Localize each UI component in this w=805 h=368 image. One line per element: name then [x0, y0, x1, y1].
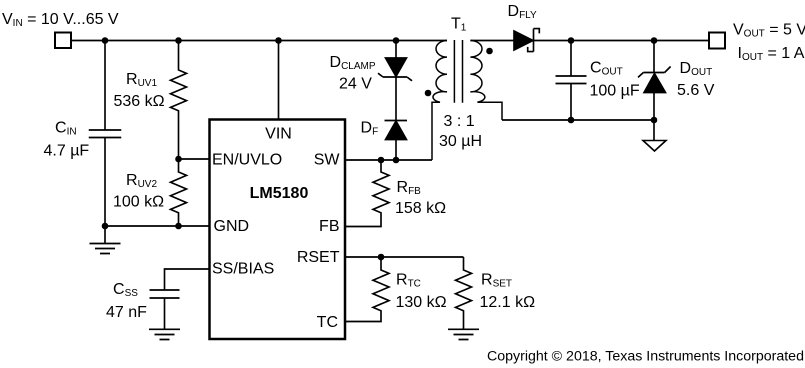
- node phase dot secondary: [486, 48, 493, 55]
- svg-text:RSET: RSET: [481, 272, 512, 290]
- node VOUT rail / COUT: [568, 37, 575, 44]
- wire SS/BIAS to CSS: [165, 269, 210, 290]
- diode DFLY (schottky): [514, 31, 533, 50]
- resistor RTC: [345, 257, 389, 322]
- svg-text:IOUT = 1 A: IOUT = 1 A: [738, 45, 805, 63]
- svg-text:GND: GND: [214, 218, 250, 235]
- capacitor CSS: [150, 290, 180, 298]
- capacitor CIN: [89, 130, 122, 138]
- svg-text:RUV1: RUV1: [126, 71, 157, 89]
- zener DCLAMP: [386, 58, 407, 77]
- svg-text:5.6 V: 5.6 V: [677, 82, 715, 99]
- svg-text:47 nF: 47 nF: [106, 304, 147, 321]
- svg-text:VIN: VIN: [265, 126, 292, 143]
- wire CIN top lead: [104, 41, 106, 131]
- svg-text:100 kΩ: 100 kΩ: [113, 194, 164, 211]
- svg-text:RUV2: RUV2: [126, 172, 157, 190]
- node bottom rail / DOUT: [651, 117, 658, 124]
- node phase dot primary: [425, 90, 432, 97]
- transformer T1 core: [454, 40, 462, 103]
- svg-text:RFB: RFB: [397, 179, 422, 197]
- wire SW: [345, 159, 432, 161]
- node VIN rail / DCLAMP: [393, 37, 400, 44]
- ground (RSET): [448, 329, 479, 339]
- svg-text:CIN: CIN: [55, 120, 77, 138]
- svg-text:12.1 kΩ: 12.1 kΩ: [480, 294, 536, 311]
- node GND rail / RUV2: [175, 223, 182, 230]
- transformer T1 secondary: [470, 41, 502, 121]
- wire RSET pin: [345, 256, 464, 258]
- node SW / RFB: [378, 157, 385, 164]
- svg-text:DCLAMP: DCLAMP: [330, 54, 376, 72]
- wire VOUT rail: [534, 40, 710, 42]
- svg-text:24 V: 24 V: [339, 76, 372, 93]
- svg-text:536 kΩ: 536 kΩ: [114, 93, 165, 110]
- diode DF: [395, 140, 397, 161]
- node bottom rail / COUT: [568, 117, 575, 124]
- input terminal: [55, 33, 71, 49]
- svg-text:SW: SW: [314, 152, 341, 169]
- resistor RUV2: [171, 159, 187, 226]
- wire secondary top to DFLY: [470, 40, 514, 42]
- wire GND rail: [105, 225, 210, 227]
- svg-text:T1: T1: [451, 16, 467, 34]
- transformer T1 primary: [432, 41, 447, 161]
- wire VIN pin: [278, 41, 280, 120]
- svg-text:SS/BIAS: SS/BIAS: [212, 261, 274, 278]
- svg-text:VIN = 10 V...65 V: VIN = 10 V...65 V: [2, 11, 119, 29]
- output terminal: [709, 33, 725, 49]
- node VIN rail / CIN: [102, 37, 109, 44]
- svg-text:130 kΩ: 130 kΩ: [396, 294, 447, 311]
- svg-text:DFLY: DFLY: [508, 3, 537, 21]
- ground (input): [90, 226, 121, 254]
- resistor RUV1: [171, 41, 187, 160]
- ground (CSS): [149, 298, 180, 340]
- node RSET / RTC: [378, 254, 385, 261]
- node SW / DF: [393, 157, 400, 164]
- wire CIN bottom lead: [104, 138, 106, 227]
- svg-text:FB: FB: [319, 218, 339, 235]
- svg-text:4.7 µF: 4.7 µF: [44, 143, 90, 160]
- node EN/UVLO: [175, 156, 182, 163]
- svg-text:DF: DF: [361, 120, 379, 138]
- node GND rail / CIN: [102, 223, 109, 230]
- wire output bottom rail: [502, 119, 654, 121]
- node VOUT rail / DOUT: [651, 37, 658, 44]
- wire EN/UVLO: [179, 158, 210, 160]
- svg-text:VOUT = 5 V: VOUT = 5 V: [733, 22, 805, 40]
- svg-text:DOUT: DOUT: [680, 60, 713, 78]
- svg-text:RTC: RTC: [396, 272, 421, 290]
- ground (output, triangle): [643, 141, 666, 152]
- svg-text:LM5180: LM5180: [250, 185, 309, 202]
- svg-text:CSS: CSS: [113, 281, 138, 299]
- svg-text:Copyright © 2018, Texas Instru: Copyright © 2018, Texas Instruments Inco…: [487, 349, 804, 365]
- resistor RSET: [456, 257, 472, 329]
- capacitor COUT: [556, 41, 587, 121]
- wire top rail VIN: [71, 40, 447, 42]
- node VIN rail / VIN pin: [275, 37, 282, 44]
- op-amp U1 LM5180 box: [210, 120, 346, 340]
- svg-text:3 : 1: 3 : 1: [444, 113, 475, 130]
- node VIN rail / RUV1: [175, 37, 182, 44]
- svg-text:EN/UVLO: EN/UVLO: [212, 152, 282, 169]
- svg-text:COUT: COUT: [590, 60, 623, 78]
- svg-text:158 kΩ: 158 kΩ: [395, 200, 446, 217]
- resistor RFB: [345, 160, 389, 227]
- svg-text:100 µF: 100 µF: [590, 83, 640, 100]
- svg-text:TC: TC: [317, 314, 338, 331]
- zener DOUT: [653, 41, 655, 73]
- svg-text:RSET: RSET: [297, 249, 340, 266]
- svg-text:30 µH: 30 µH: [439, 133, 482, 150]
